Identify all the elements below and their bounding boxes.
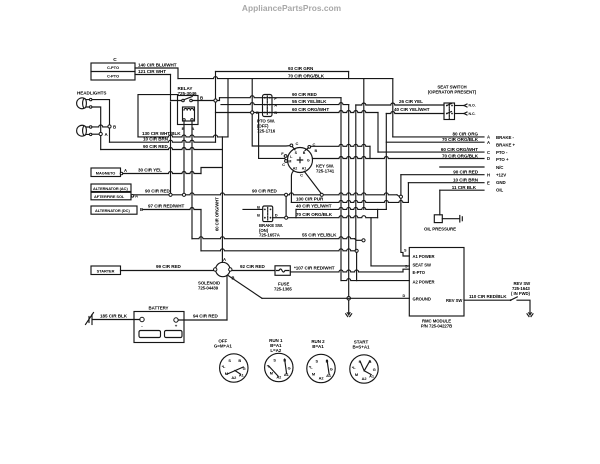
svg-text:P/N 725-04227B: P/N 725-04227B	[421, 324, 452, 329]
alternator (AC)	[91, 184, 131, 192]
svg-text:C: C	[300, 173, 303, 178]
svg-text:725-04439: 725-04439	[198, 285, 219, 290]
svg-text:OIL: OIL	[496, 187, 504, 192]
svg-text:H: H	[487, 172, 490, 177]
svg-text:PTO +: PTO +	[496, 157, 509, 162]
wire brake D to junction	[273, 217, 285, 219]
svg-text:10 CIR BRN: 10 CIR BRN	[143, 136, 169, 141]
svg-text:AFTERFIRE SOL: AFTERFIRE SOL	[94, 194, 125, 199]
wire bundle vertical 355.8 (26 CIR YEL drop)	[355, 105, 357, 250]
svg-text:A1 POWER: A1 POWER	[413, 254, 435, 259]
magneto	[91, 168, 121, 177]
svg-text:SEAT SW: SEAT SW	[413, 262, 432, 267]
svg-text:G: G	[288, 365, 291, 370]
wire headlight2 to node A	[92, 133, 99, 135]
PTO switch 725-1716	[263, 95, 273, 117]
svg-text:C: C	[296, 141, 299, 146]
seat switch NO lead	[455, 105, 465, 107]
svg-text:A: A	[487, 140, 490, 145]
svg-text:M: M	[312, 372, 315, 377]
vertical feed to key switch C	[251, 79, 253, 111]
svg-text:185 CIR BLK: 185 CIR BLK	[100, 314, 128, 319]
svg-text:E-PTO: E-PTO	[413, 270, 426, 275]
wire branch down at 228	[227, 79, 229, 137]
svg-text:GROUND: GROUND	[413, 296, 431, 301]
svg-text:B: B	[238, 358, 241, 363]
wire headlight1 to node A	[92, 107, 101, 132]
wire bundle vertical 341 (90 CIR RED drop)	[340, 98, 342, 281]
fuse 725-1365	[275, 266, 290, 276]
wire to RMC lower	[201, 249, 355, 251]
svg-text:G: G	[307, 159, 310, 163]
wire solenoid A from above	[221, 137, 223, 262]
svg-text:HEADLIGHTS: HEADLIGHTS	[77, 91, 106, 96]
svg-text:*L: *L	[222, 364, 226, 369]
svg-text:C-PTO: C-PTO	[107, 65, 119, 70]
svg-text:C-PTO: C-PTO	[107, 74, 119, 79]
wire seat sw entry	[371, 265, 409, 267]
svg-text:70 CIR ORG/BLK: 70 CIR ORG/BLK	[296, 212, 333, 217]
svg-text:C: C	[487, 150, 490, 155]
starter	[91, 266, 121, 275]
wire brake junction up from 90RED	[285, 196, 287, 216]
wire bundle vertical ground 348.7	[348, 105, 350, 297]
svg-text:92 CIR RED: 92 CIR RED	[240, 264, 266, 269]
svg-text:N.O.: N.O.	[469, 104, 476, 108]
key switch connector left C	[285, 160, 288, 163]
svg-text:70 CIR ORG/BLK: 70 CIR ORG/BLK	[442, 137, 479, 142]
svg-text:121 CIR WHT: 121 CIR WHT	[138, 69, 166, 74]
svg-text:70 CIR ORG/BLK: 70 CIR ORG/BLK	[442, 153, 479, 158]
svg-text:A2 POWER: A2 POWER	[413, 279, 435, 284]
junction relay output	[214, 99, 217, 102]
svg-text:BRAKE +: BRAKE +	[496, 143, 516, 148]
svg-text:M: M	[288, 159, 291, 163]
svg-text:B: B	[303, 151, 306, 155]
vertical key switch left feed	[259, 113, 286, 160]
svg-text:*L: *L	[309, 364, 313, 369]
svg-text:B=A1: B=A1	[312, 344, 324, 349]
svg-text:100 CIR PUR: 100 CIR PUR	[296, 197, 324, 202]
seat switch NC lead	[455, 113, 465, 115]
svg-text:*107 CIR RED/WHT: *107 CIR RED/WHT	[294, 265, 335, 270]
svg-text:STARTER: STARTER	[97, 268, 115, 273]
svg-text:D: D	[275, 213, 278, 218]
svg-text:B: B	[315, 149, 318, 153]
svg-text:B: B	[200, 96, 203, 101]
RMC module P/N 725-04227B	[409, 248, 464, 317]
svg-text:B: B	[257, 213, 260, 218]
svg-text:10 CIR BRN: 10 CIR BRN	[453, 178, 479, 183]
svg-text:70 CIR ORG/BLK: 70 CIR ORG/BLK	[288, 73, 325, 78]
wire seat sw drop to RMC	[370, 218, 372, 266]
wire ground bus to RMC	[262, 297, 409, 299]
svg-text:M: M	[270, 371, 273, 376]
wire key A1 diagonal to 90 CIR RED	[304, 171, 321, 193]
svg-text:55 CIR YEL/BLK: 55 CIR YEL/BLK	[302, 233, 337, 238]
svg-text:60 CIR ORG/WHT: 60 CIR ORG/WHT	[292, 107, 329, 112]
svg-text:B: B	[113, 125, 116, 130]
rev switch 725-1643	[510, 299, 512, 301]
svg-text:GND: GND	[496, 180, 506, 185]
svg-text:97 CIR RED/WHT: 97 CIR RED/WHT	[148, 203, 185, 208]
svg-text:ALTERNATOR (DC): ALTERNATOR (DC)	[95, 208, 130, 213]
svg-text:BRAKE -: BRAKE -	[496, 135, 515, 140]
svg-text:G: G	[330, 366, 333, 371]
svg-text:( IN FWD): ( IN FWD)	[511, 291, 530, 296]
chassis ground rev switch	[528, 312, 533, 316]
svg-text:725-1365: 725-1365	[274, 286, 292, 291]
svg-text:93 CIR GRN: 93 CIR GRN	[288, 66, 314, 71]
svg-text:94 CIR RED: 94 CIR RED	[193, 314, 219, 319]
key switch 725-1741	[288, 148, 313, 173]
brake switch 725-1657A	[263, 206, 273, 222]
svg-text:C: C	[282, 162, 285, 167]
svg-text:A2: A2	[293, 167, 298, 171]
wire brake B	[243, 208, 263, 210]
svg-text:BATTERY: BATTERY	[149, 306, 169, 311]
svg-text:N/C: N/C	[496, 165, 504, 170]
node B	[108, 125, 111, 128]
svg-text:D: D	[487, 156, 490, 161]
svg-text:30 CIR YEL: 30 CIR YEL	[138, 168, 162, 173]
svg-text:90 CIR RED: 90 CIR RED	[292, 92, 318, 97]
junction circles on 90 CIR RED	[169, 193, 172, 196]
wire headlight2 to node B	[92, 125, 108, 127]
wire relay output to junction	[192, 100, 214, 102]
svg-text:S: S	[316, 358, 319, 363]
svg-text:MAGNETO: MAGNETO	[96, 170, 115, 175]
wire relay coil leads down	[170, 102, 172, 193]
relay switch contacts	[182, 99, 185, 102]
wire bundle vertical 386.3 (40 YEL/WHT riser)	[385, 114, 387, 210]
svg-text:725-1716: 725-1716	[257, 128, 276, 133]
ground junction circle	[347, 297, 351, 301]
svg-text:725-1657A: 725-1657A	[259, 233, 280, 238]
wire junction up to 93 CIR GRN	[215, 72, 217, 99]
svg-text:11 CIR BLK: 11 CIR BLK	[452, 185, 477, 190]
svg-text:OIL PRESSURE: OIL PRESSURE	[424, 227, 456, 232]
wire 97 down and right	[200, 210, 202, 251]
key switch connector top-left C	[290, 144, 293, 147]
wire 70 ORG/BLK down to 80 CIR ORG	[392, 79, 394, 137]
wire end circle 90 CIR RED right	[399, 195, 402, 198]
node A	[99, 132, 102, 135]
wire 121 CIR WHT into relay	[171, 75, 182, 101]
svg-text:130 CIR WHT/BLK: 130 CIR WHT/BLK	[142, 131, 181, 136]
wire N/C stub	[440, 166, 484, 168]
svg-text:60 CIR ORG/WHT: 60 CIR ORG/WHT	[214, 197, 219, 231]
svg-text:90 CIR RED: 90 CIR RED	[145, 188, 171, 193]
svg-text:(OPERATOR PRESENT): (OPERATOR PRESENT)	[428, 90, 477, 95]
svg-text:AppliancePartsPros.com: AppliancePartsPros.com	[242, 3, 341, 13]
svg-text:90 CIR RED: 90 CIR RED	[143, 144, 169, 149]
svg-text:A: A	[223, 257, 226, 262]
svg-text:E: E	[487, 180, 490, 185]
svg-text:*L: *L	[352, 365, 356, 370]
wire 130 CIR WHT/BLK loop to relay	[138, 95, 178, 137]
svg-text:C: C	[113, 57, 117, 63]
wire node A down to 90 CIR RED	[100, 136, 102, 150]
oil pressure switch	[434, 215, 442, 223]
svg-text:+12V: +12V	[496, 172, 506, 177]
svg-text:M: M	[355, 372, 358, 377]
solenoid 725-04439	[216, 262, 230, 276]
wire solenoid B diagonal to ground bus	[228, 275, 262, 298]
wire key G to 70 CIR ORG/BLK PTO+	[313, 157, 485, 159]
wire battery + to solenoid	[226, 276, 228, 320]
svg-text:725-1741: 725-1741	[316, 169, 335, 174]
svg-text:B: B	[257, 204, 260, 209]
wire relay output jog to 90 CIR RED	[217, 98, 219, 101]
wire bundle vertical 378 (60 ORG/WHT drop)	[377, 113, 379, 153]
alternator (DC)	[91, 206, 137, 214]
svg-text:G=M+A1: G=M+A1	[214, 344, 233, 349]
chassis ground battery	[91, 315, 93, 325]
svg-text:N.C.: N.C.	[469, 112, 476, 116]
svg-text:REV SW: REV SW	[446, 298, 462, 303]
svg-text:40 CIR YEL/WHT: 40 CIR YEL/WHT	[296, 204, 332, 209]
wire A2 power entry	[341, 279, 409, 281]
svg-text:80 CIR ORG: 80 CIR ORG	[452, 132, 478, 137]
wire A1 power entry	[401, 198, 409, 256]
key switch connector top-right C	[308, 146, 311, 149]
svg-text:A: A	[124, 168, 127, 173]
svg-text:A1: A1	[302, 167, 307, 171]
svg-text:40 CIR YEL/WHT: 40 CIR YEL/WHT	[394, 107, 430, 112]
svg-text:ALTERNATOR (AC): ALTERNATOR (AC)	[93, 186, 128, 191]
svg-text:L=A2: L=A2	[270, 348, 281, 353]
svg-text:D: D	[403, 294, 406, 298]
wire headlight1 to node B	[92, 100, 110, 125]
wire node B down to 10 CIR BRN	[109, 128, 111, 142]
afterfire solenoid	[91, 192, 131, 200]
svg-text:99 CIR RED: 99 CIR RED	[156, 264, 182, 269]
wire branch down at 363.8	[363, 79, 365, 210]
svg-text:90 CIR RED: 90 CIR RED	[252, 188, 278, 193]
relay coil	[183, 107, 195, 121]
wire key B to bundle	[311, 144, 370, 146]
svg-text:60 CIR ORG/WHT: 60 CIR ORG/WHT	[441, 147, 478, 152]
svg-text:110 CIR RED/BLK: 110 CIR RED/BLK	[469, 294, 507, 299]
svg-text:140 CIR BLU/WHT: 140 CIR BLU/WHT	[138, 63, 177, 68]
svg-text:26 CIR YEL: 26 CIR YEL	[399, 99, 423, 104]
key switch connector F	[284, 155, 287, 158]
svg-text:90 CIR RED: 90 CIR RED	[453, 170, 479, 175]
svg-text:PTO -: PTO -	[496, 150, 508, 155]
svg-text:G: G	[373, 367, 376, 372]
junction circle pto D	[251, 111, 254, 114]
svg-text:A: A	[487, 135, 490, 140]
wire junction down to 10 CIR BRN	[215, 102, 217, 142]
wire key A2 down to 100 CIR PUR	[291, 171, 293, 203]
chassis ground under RMC	[346, 312, 351, 316]
svg-text:55 CIR YEL/BLK: 55 CIR YEL/BLK	[292, 99, 327, 104]
svg-text:B=S+A1: B=S+A1	[353, 345, 371, 350]
